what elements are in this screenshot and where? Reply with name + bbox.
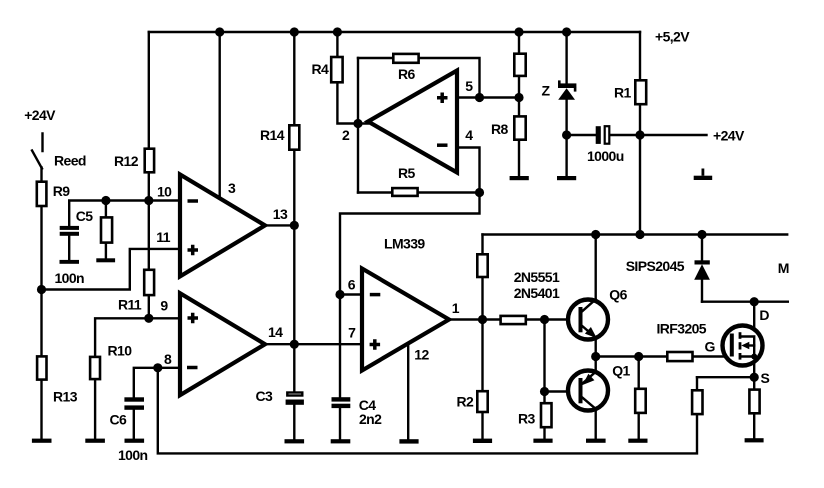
svg-text:2n2: 2n2 [359, 411, 382, 427]
svg-text:R1: R1 [614, 85, 632, 101]
svg-text:11: 11 [156, 229, 170, 245]
svg-text:R8: R8 [491, 121, 509, 137]
svg-text:R13: R13 [53, 389, 78, 405]
svg-text:+24V: +24V [713, 128, 745, 144]
svg-text:100n: 100n [118, 447, 148, 463]
svg-text:G: G [705, 339, 716, 355]
svg-text:Q6: Q6 [609, 287, 627, 303]
svg-text:R2: R2 [457, 394, 475, 410]
svg-text:R4: R4 [312, 61, 330, 77]
svg-text:2N5551: 2N5551 [514, 269, 560, 285]
svg-text:S: S [761, 370, 770, 386]
svg-text:13: 13 [273, 206, 288, 222]
svg-text:C3: C3 [256, 388, 274, 404]
svg-text:+5,2V: +5,2V [655, 29, 690, 45]
svg-text:7: 7 [348, 325, 356, 341]
svg-text:+24V: +24V [24, 107, 56, 123]
svg-text:SIPS2045: SIPS2045 [626, 258, 685, 274]
svg-text:100n: 100n [55, 270, 85, 286]
svg-text:R10: R10 [108, 343, 133, 359]
svg-text:Q1: Q1 [612, 363, 630, 379]
svg-text:IRF3205: IRF3205 [657, 321, 707, 337]
svg-text:10: 10 [157, 184, 172, 200]
svg-text:R3: R3 [518, 411, 536, 427]
svg-text:9: 9 [160, 298, 168, 314]
svg-text:R14: R14 [260, 127, 285, 143]
svg-text:C5: C5 [76, 208, 94, 224]
svg-text:R6: R6 [398, 66, 416, 82]
svg-text:8: 8 [164, 351, 172, 367]
svg-text:C6: C6 [110, 412, 128, 428]
svg-text:Z: Z [542, 83, 551, 99]
svg-text:2N5401: 2N5401 [514, 285, 560, 301]
svg-text:LM339: LM339 [384, 236, 425, 252]
svg-text:4: 4 [465, 127, 473, 143]
svg-text:R9: R9 [53, 183, 71, 199]
svg-text:14: 14 [268, 324, 283, 340]
svg-text:R12: R12 [114, 153, 139, 169]
svg-text:1: 1 [452, 300, 460, 316]
svg-text:R11: R11 [118, 297, 142, 313]
svg-text:R5: R5 [398, 165, 416, 181]
svg-text:M: M [778, 260, 789, 276]
svg-text:6: 6 [348, 277, 356, 293]
svg-text:2: 2 [342, 127, 350, 143]
svg-text:12: 12 [414, 347, 429, 363]
svg-text:3: 3 [228, 180, 236, 196]
svg-text:5: 5 [465, 78, 473, 94]
svg-text:D: D [759, 307, 769, 323]
svg-text:1000u: 1000u [587, 148, 624, 164]
svg-text:Reed: Reed [54, 153, 86, 169]
